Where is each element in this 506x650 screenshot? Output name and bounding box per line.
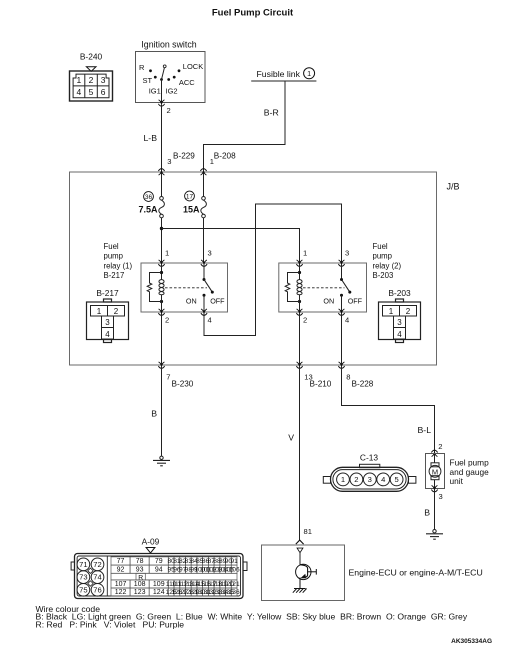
svg-text:B-240: B-240 bbox=[80, 52, 103, 62]
connector mate relay2 pin3 bbox=[338, 260, 344, 267]
svg-text:74: 74 bbox=[93, 573, 101, 582]
svg-text:ON: ON bbox=[186, 297, 197, 306]
wire pin81 to transistor bbox=[299, 553, 301, 565]
connector B-217 pin numbers bbox=[97, 307, 119, 339]
svg-text:4: 4 bbox=[381, 475, 385, 484]
svg-text:IG2: IG2 bbox=[166, 87, 178, 96]
wire ignition switch internal to pin 2 bbox=[161, 80, 163, 102]
svg-text:1: 1 bbox=[165, 249, 169, 258]
svg-text:2: 2 bbox=[165, 315, 169, 324]
svg-text:2: 2 bbox=[167, 106, 171, 115]
fuse 17 circled number bbox=[185, 191, 195, 201]
svg-text:unit: unit bbox=[450, 476, 464, 486]
relay 2 dashed actuator line bbox=[303, 287, 345, 289]
relay 1 dashed actuator line bbox=[165, 287, 207, 289]
ignition switch position labels bbox=[139, 62, 203, 96]
relay 1 switch contacts bbox=[203, 278, 206, 281]
svg-text:75: 75 bbox=[79, 585, 87, 594]
connector B-203 body bbox=[379, 299, 421, 343]
relay 1 coil bbox=[162, 280, 165, 295]
svg-text:2: 2 bbox=[406, 307, 411, 316]
svg-text:72: 72 bbox=[93, 560, 101, 569]
connector A-09 middle band bbox=[111, 573, 237, 580]
svg-text:V: V bbox=[288, 433, 294, 443]
connector mate fuel pump pin 2 bbox=[431, 450, 437, 457]
svg-text:B-L: B-L bbox=[418, 425, 432, 435]
svg-text:108: 108 bbox=[134, 581, 146, 588]
relay 2 coil wire upper bbox=[299, 264, 301, 280]
connector mate at J/B bottom B-230 bbox=[158, 362, 164, 369]
connector B-240 body bbox=[70, 71, 113, 101]
svg-text:A-09: A-09 bbox=[142, 537, 160, 547]
svg-text:Engine-ECU or engine-A-M/T-ECU: Engine-ECU or engine-A-M/T-ECU bbox=[349, 568, 483, 578]
svg-text:17: 17 bbox=[186, 194, 194, 201]
wire B-R fusible link to J/B bbox=[204, 81, 286, 171]
relay 2 coil node bottom bbox=[298, 300, 301, 303]
connector B-217 body bbox=[87, 299, 129, 343]
wire relay1 pin4 to relay2 pin3 link bbox=[204, 204, 342, 336]
wire relay2 pin4 to J/B bottom bbox=[341, 314, 343, 365]
fuel pump motor bbox=[429, 455, 441, 488]
wire from J/B top to fuse 36 bbox=[161, 174, 163, 197]
junction block J/B box bbox=[70, 172, 437, 365]
fusible link bus bar bbox=[251, 80, 316, 82]
relay 1 switch output wire bbox=[203, 295, 205, 311]
connector mate relay1 pin1 bbox=[158, 260, 164, 267]
svg-text:79: 79 bbox=[155, 558, 163, 565]
svg-text:R: R bbox=[139, 63, 145, 72]
connector mate at ignition switch pin 2 bbox=[158, 100, 164, 107]
svg-text:91: 91 bbox=[230, 558, 238, 565]
connector mate at J/B top B-229 bbox=[158, 169, 164, 176]
svg-text:92: 92 bbox=[117, 566, 125, 573]
svg-text:1: 1 bbox=[77, 75, 82, 85]
connector C-13 body bbox=[323, 464, 416, 491]
svg-text:ST: ST bbox=[143, 76, 153, 85]
svg-text:124: 124 bbox=[153, 589, 165, 596]
connector A-09 pins 107-121 row bbox=[111, 580, 237, 588]
svg-text:36: 36 bbox=[145, 194, 153, 201]
chassis ground in ECU bbox=[293, 589, 307, 593]
svg-text:B-230: B-230 bbox=[172, 379, 194, 388]
svg-text:LOCK: LOCK bbox=[183, 62, 203, 71]
svg-text:5: 5 bbox=[89, 87, 94, 97]
connector A-09 keying diamonds bbox=[88, 568, 93, 573]
svg-text:B: B bbox=[424, 508, 430, 518]
wire relay2 pin2 to J/B bottom bbox=[299, 314, 301, 365]
svg-text:2: 2 bbox=[438, 442, 442, 451]
connector A-09 round pins 71-76 bbox=[77, 558, 104, 596]
connector mate relay1 pin4 bbox=[201, 309, 207, 316]
svg-text:3: 3 bbox=[167, 157, 171, 166]
svg-text:81: 81 bbox=[304, 527, 312, 536]
svg-text:3: 3 bbox=[105, 318, 110, 327]
svg-text:3: 3 bbox=[345, 249, 349, 258]
relay 2 switch input wire bbox=[341, 264, 343, 280]
connector mate at J/B top B-208 bbox=[200, 169, 206, 176]
relay 1 parallel resistor branch bbox=[147, 273, 161, 302]
svg-text:1: 1 bbox=[303, 249, 307, 258]
connector B-203 pin numbers bbox=[389, 307, 411, 339]
svg-text:123: 123 bbox=[134, 589, 146, 596]
svg-text:1: 1 bbox=[389, 307, 394, 316]
relay 2 coil wire lower bbox=[299, 295, 301, 311]
ground symbol left bbox=[153, 456, 170, 466]
svg-text:pump: pump bbox=[373, 252, 393, 261]
svg-text:B-228: B-228 bbox=[352, 379, 374, 388]
svg-text:71: 71 bbox=[79, 560, 87, 569]
svg-text:4: 4 bbox=[105, 330, 110, 339]
connector A-09 pins 122-136 row bbox=[111, 588, 237, 596]
wire from J/B top to fuse 17 bbox=[203, 174, 205, 197]
svg-text:OFF: OFF bbox=[348, 297, 363, 306]
svg-text:7.5A: 7.5A bbox=[138, 204, 158, 214]
fuse 36 circled number bbox=[144, 192, 154, 202]
svg-text:Fuel: Fuel bbox=[373, 242, 388, 251]
fuel pump and gauge unit box bbox=[426, 454, 445, 489]
svg-text:3: 3 bbox=[397, 318, 402, 327]
svg-text:6: 6 bbox=[101, 87, 106, 97]
wire branch to relay 2 pin 1 bbox=[162, 229, 300, 262]
ignition switch box bbox=[136, 52, 206, 103]
relay 1 switch input wire bbox=[203, 264, 205, 280]
svg-text:2: 2 bbox=[354, 475, 358, 484]
relay 1 label block bbox=[104, 242, 133, 280]
engine ECU box bbox=[262, 545, 345, 601]
wire B to ground bbox=[161, 367, 163, 457]
connector mate at J/B bottom B-210 bbox=[296, 362, 302, 369]
connector C-13 pin circles bbox=[337, 473, 403, 486]
connector A-09 body bbox=[71, 554, 247, 599]
svg-text:relay (1): relay (1) bbox=[104, 261, 133, 270]
wire V relay2 coil to ECU bbox=[299, 367, 301, 541]
wire B-L relay2 pin4 to fuel pump bbox=[342, 367, 435, 453]
connector mate at J/B bottom B-228 bbox=[338, 362, 344, 369]
svg-text:8: 8 bbox=[346, 373, 350, 382]
svg-text:4: 4 bbox=[397, 330, 402, 339]
connector B-240 marker triangle bbox=[86, 67, 96, 72]
relay 1 coil wire lower bbox=[161, 295, 163, 311]
svg-text:ON: ON bbox=[323, 297, 334, 306]
svg-text:B-217: B-217 bbox=[104, 271, 125, 280]
wire L-B ignition to J/B bbox=[161, 105, 163, 171]
svg-text:R: Red P: Pink V: Violet: R: Red P: Pink V: Violet PU: Purple bbox=[36, 620, 185, 630]
svg-text:B-217: B-217 bbox=[96, 288, 119, 298]
svg-text:3: 3 bbox=[101, 75, 106, 85]
svg-text:2: 2 bbox=[114, 307, 119, 316]
junction node fuse36/relay2 coil feed bbox=[160, 227, 163, 230]
svg-text:B-203: B-203 bbox=[373, 271, 394, 280]
svg-text:3: 3 bbox=[368, 475, 372, 484]
svg-text:relay (2): relay (2) bbox=[373, 261, 402, 270]
svg-text:4: 4 bbox=[208, 315, 212, 324]
svg-text:93: 93 bbox=[136, 566, 144, 573]
relay 2 switch output wire bbox=[341, 295, 343, 311]
fuse 36 symbol bbox=[159, 197, 165, 218]
ground symbol right bbox=[426, 530, 443, 540]
svg-text:1: 1 bbox=[341, 475, 345, 484]
svg-text:M: M bbox=[432, 467, 438, 476]
svg-text:3: 3 bbox=[208, 249, 212, 258]
svg-text:2: 2 bbox=[89, 75, 94, 85]
svg-text:L-B: L-B bbox=[143, 133, 157, 143]
wire fuse 17 to relay 1 pin 3 bbox=[203, 218, 205, 262]
svg-text:7: 7 bbox=[166, 373, 170, 382]
svg-text:IG1: IG1 bbox=[149, 87, 161, 96]
svg-text:Fuel: Fuel bbox=[104, 242, 119, 251]
svg-text:pump: pump bbox=[104, 252, 124, 261]
svg-text:B: B bbox=[151, 409, 157, 419]
fuse 17 symbol bbox=[201, 197, 207, 218]
fuel pump relay 1 box bbox=[141, 263, 228, 312]
connector mate relay1 pin3 bbox=[201, 260, 207, 267]
relay 2 coil bbox=[300, 280, 303, 295]
svg-text:107: 107 bbox=[115, 581, 127, 588]
connector C-13 pin numbers bbox=[341, 475, 399, 484]
svg-text:94: 94 bbox=[155, 566, 163, 573]
svg-text:1: 1 bbox=[307, 69, 311, 78]
svg-text:3: 3 bbox=[439, 492, 443, 501]
connector A-09 marker triangle bbox=[146, 548, 155, 553]
svg-text:Ignition switch: Ignition switch bbox=[141, 39, 196, 49]
connector mate relay2 pin2 bbox=[296, 309, 302, 316]
fuel pump label bbox=[450, 458, 490, 486]
svg-text:121: 121 bbox=[229, 581, 240, 588]
connector mate fuel pump pin 3 bbox=[431, 485, 437, 492]
relay 2 switch contacts bbox=[340, 278, 343, 281]
connector mate relay1 pin2 bbox=[158, 309, 164, 316]
connector mate relay2 pin4 bbox=[338, 309, 344, 316]
svg-text:C-13: C-13 bbox=[360, 452, 378, 462]
svg-text:Fuel Pump Circuit: Fuel Pump Circuit bbox=[212, 8, 294, 19]
wire B fuel pump to ground bbox=[434, 490, 436, 530]
svg-text:5: 5 bbox=[394, 475, 398, 484]
svg-text:122: 122 bbox=[115, 589, 127, 596]
fuel pump relay 2 box bbox=[279, 263, 367, 312]
svg-text:15A: 15A bbox=[183, 204, 200, 214]
svg-text:AK305334AG: AK305334AG bbox=[451, 638, 492, 645]
svg-text:77: 77 bbox=[117, 558, 125, 565]
relay 1 coil node top bbox=[160, 271, 163, 274]
svg-text:106: 106 bbox=[229, 566, 240, 573]
connector mate relay2 pin1 bbox=[296, 260, 302, 267]
svg-text:ACC: ACC bbox=[179, 78, 195, 87]
svg-text:4: 4 bbox=[345, 315, 349, 324]
relay 2 parallel resistor branch bbox=[285, 273, 299, 302]
svg-text:136: 136 bbox=[229, 589, 240, 596]
svg-text:78: 78 bbox=[136, 558, 144, 565]
relay 1 coil node bottom bbox=[160, 300, 163, 303]
relay 1 coil wire upper bbox=[161, 264, 163, 280]
ECU side connector triangle bbox=[297, 548, 303, 553]
svg-text:B-210: B-210 bbox=[310, 379, 332, 388]
svg-text:2: 2 bbox=[303, 315, 307, 324]
transistor in ECU bbox=[296, 564, 317, 588]
svg-text:J/B: J/B bbox=[447, 182, 460, 192]
svg-text:Fusible link: Fusible link bbox=[257, 69, 301, 79]
svg-text:B-208: B-208 bbox=[214, 151, 236, 160]
svg-text:OFF: OFF bbox=[210, 297, 225, 306]
svg-text:1: 1 bbox=[97, 307, 102, 316]
svg-text:109: 109 bbox=[153, 581, 165, 588]
connector A-09 pins 92-106 row bbox=[111, 565, 237, 573]
connector A-09 pins 77-91 row bbox=[111, 557, 237, 565]
svg-text:4: 4 bbox=[77, 87, 82, 97]
ignition switch wiper arm bbox=[162, 68, 165, 80]
relay 2 coil node top bbox=[298, 271, 301, 274]
connector mate at ECU pin 81 bbox=[296, 540, 304, 544]
svg-text:B-203: B-203 bbox=[388, 288, 411, 298]
wire fuse 36 to relay 1 pin 1 bbox=[161, 218, 163, 262]
wire relay1 pin2 to J/B bottom bbox=[161, 314, 163, 365]
connector B-240 pin numbers bbox=[77, 75, 106, 97]
fusible link circled 1 bbox=[304, 68, 315, 79]
relay 2 label block bbox=[373, 242, 402, 280]
svg-text:B-229: B-229 bbox=[173, 151, 195, 160]
svg-text:76: 76 bbox=[93, 585, 101, 594]
svg-text:73: 73 bbox=[79, 573, 87, 582]
svg-text:B-R: B-R bbox=[264, 108, 279, 118]
ignition switch contacts bbox=[149, 69, 180, 81]
